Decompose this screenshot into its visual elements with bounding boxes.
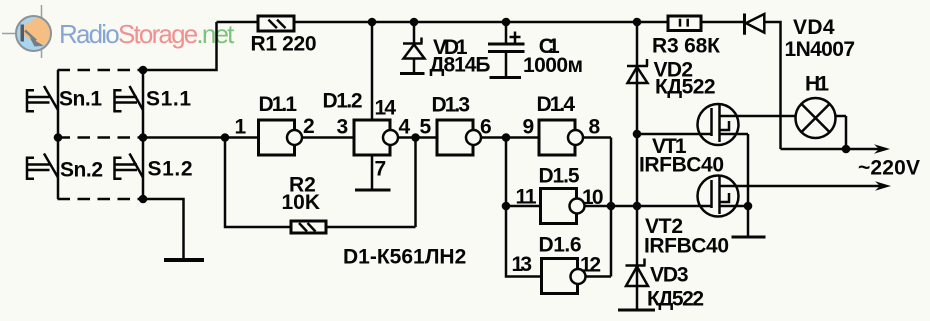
svg-text:9: 9 bbox=[523, 116, 535, 139]
wire: output bus to gate bus link bbox=[611, 205, 637, 208]
svg-text:14: 14 bbox=[375, 97, 397, 120]
wire: middle row to pin 1 of D1.1 bbox=[143, 136, 258, 139]
svg-text:3: 3 bbox=[337, 116, 349, 139]
node: mains upper junction bbox=[842, 145, 851, 154]
svg-text:~220V: ~220V bbox=[858, 157, 920, 180]
svg-text:Д814Б: Д814Б bbox=[430, 54, 491, 77]
node: VT1 gate junction bbox=[633, 130, 642, 139]
logo arrow bbox=[25, 31, 36, 41]
svg-text:H1: H1 bbox=[805, 73, 829, 96]
sensor Sn.1 bbox=[27, 86, 58, 113]
wire: VT1 gate bbox=[637, 133, 712, 136]
svg-text:VD3: VD3 bbox=[650, 264, 689, 287]
logo transistor bar bbox=[21, 25, 25, 42]
svg-text:S1.1: S1.1 bbox=[146, 88, 191, 111]
diode VD4 bbox=[743, 14, 746, 35]
svg-text:Sn.2: Sn.2 bbox=[60, 159, 103, 182]
wire: D1.2 out to D1.3 in bbox=[398, 136, 437, 139]
wire: dashed mechanical link top (Sn.1 to S1.1) bbox=[58, 69, 144, 72]
node: VT2 gate junction bbox=[633, 202, 642, 211]
svg-text:13: 13 bbox=[512, 253, 533, 276]
inverter D1.5 bbox=[541, 189, 577, 224]
logo circle bbox=[16, 16, 51, 51]
svg-text:IRFBC40: IRFBC40 bbox=[639, 154, 724, 177]
svg-text:R1 220: R1 220 bbox=[251, 32, 317, 55]
svg-text:D1.1: D1.1 bbox=[259, 93, 298, 116]
svg-text:12: 12 bbox=[580, 254, 601, 277]
wire: left sensor column vertical bbox=[57, 70, 60, 199]
node: S1.1 top junction bbox=[139, 66, 148, 75]
node: pin14 rail junction bbox=[368, 18, 377, 27]
resistor R1 bbox=[258, 16, 294, 31]
svg-text:Sn.1: Sn.1 bbox=[59, 88, 102, 111]
svg-text:6: 6 bbox=[480, 116, 492, 139]
svg-text:КД522: КД522 bbox=[655, 76, 716, 99]
svg-text:D1.6: D1.6 bbox=[539, 234, 582, 257]
wire: gate bus vertical bbox=[636, 22, 639, 310]
svg-text:1N4007: 1N4007 bbox=[785, 38, 856, 61]
svg-text:VD4: VD4 bbox=[793, 16, 835, 39]
svg-text:1000м: 1000м bbox=[523, 54, 583, 77]
inverter D1.2 bbox=[354, 120, 390, 155]
wire: bottom row to ground bbox=[143, 199, 184, 258]
node: S1 mid junction bbox=[139, 133, 148, 142]
wire: D1.4 out to output bus bbox=[583, 136, 611, 139]
svg-text:1: 1 bbox=[235, 116, 247, 139]
node: VD1 rail junction bbox=[410, 18, 419, 27]
node: input bus top junction bbox=[502, 133, 511, 142]
sensor Sn.2 bbox=[27, 154, 58, 181]
resistor R3 bbox=[668, 16, 701, 31]
lamp H1 bbox=[796, 98, 836, 138]
diode VD2 bbox=[627, 59, 648, 66]
transistor VT1 bbox=[698, 104, 739, 145]
wire: output bus vertical bbox=[610, 138, 613, 277]
wire: D1.6 out to output bus bbox=[586, 275, 612, 278]
node: input bus D1.5 junction bbox=[502, 202, 511, 211]
node: Sn mid junction bbox=[54, 133, 63, 142]
wire: D1.5 out to output bus bbox=[585, 205, 612, 208]
svg-text:4: 4 bbox=[399, 116, 411, 139]
wire: lower mains arrow head bbox=[875, 181, 891, 191]
inverter D1.1 bbox=[259, 120, 295, 155]
wire: D1.1 out to D1.2 in bbox=[302, 136, 354, 139]
node: R2 left junction bbox=[221, 133, 230, 142]
switch S1.1 bbox=[115, 86, 144, 113]
transistor VT2 bbox=[698, 176, 739, 217]
svg-text:11: 11 bbox=[516, 186, 537, 209]
svg-text:2: 2 bbox=[303, 115, 315, 138]
wire: top rail from corner to R3 junction bbox=[217, 21, 745, 24]
node: R3 rail junction bbox=[633, 18, 642, 27]
wire: lamp right to mains node bbox=[836, 116, 847, 149]
switch S1.2 bbox=[115, 154, 144, 181]
capacitor C1 bbox=[505, 22, 508, 43]
svg-text:7: 7 bbox=[375, 158, 387, 181]
node: C1 rail junction bbox=[502, 18, 511, 27]
svg-text:D1-К561ЛН2: D1-К561ЛН2 bbox=[343, 246, 466, 269]
svg-text:D1.4: D1.4 bbox=[537, 93, 576, 116]
svg-text:IRFBC40: IRFBC40 bbox=[644, 235, 729, 258]
resistor R2 feedback bbox=[225, 138, 416, 228]
svg-text:5: 5 bbox=[420, 116, 432, 139]
inverter D1.3 bbox=[437, 120, 473, 155]
wire: D1.5 input bbox=[506, 205, 541, 208]
node: pin4/5 junction bbox=[411, 133, 420, 142]
diode VD3 bbox=[626, 259, 646, 266]
wire: right sensor column vertical bbox=[142, 70, 145, 199]
wire: VT2 gate bbox=[637, 205, 712, 208]
svg-text:RadioStorage.net: RadioStorage.net bbox=[59, 19, 235, 49]
svg-text:КД522: КД522 bbox=[647, 288, 704, 311]
wire: dashed link middle row bbox=[58, 136, 144, 139]
wire: D1.3 out to D1.4 in bbox=[481, 136, 539, 139]
wire: corner down to sensor top line bbox=[143, 22, 217, 70]
svg-text:8: 8 bbox=[589, 116, 601, 139]
zener VD1 bbox=[403, 22, 423, 73]
svg-text:D1.3: D1.3 bbox=[432, 94, 471, 117]
wire: dashed link bottom row bbox=[58, 198, 144, 201]
svg-text:10K: 10K bbox=[282, 191, 321, 214]
svg-text:D1.5: D1.5 bbox=[539, 165, 580, 188]
wire: upper mains line with arrow bbox=[781, 148, 880, 151]
svg-text:S1.2: S1.2 bbox=[148, 158, 193, 181]
logo crosshair bbox=[2, 5, 42, 58]
inverter D1.4 bbox=[539, 120, 575, 155]
node: output bus D1.5 junction bbox=[607, 202, 616, 211]
ground bar under sensors bbox=[164, 258, 204, 262]
pin 14 wire bbox=[371, 22, 374, 120]
wire: input bus vertical bbox=[506, 138, 541, 277]
logo orange wedge bbox=[24, 16, 51, 47]
svg-text:R3 68К: R3 68К bbox=[652, 35, 720, 58]
pin 7 wire and ground bbox=[371, 155, 374, 190]
inverter D1.6 bbox=[542, 259, 578, 294]
node: S1.2 bottom junction bbox=[139, 195, 148, 204]
svg-text:D1.2: D1.2 bbox=[323, 90, 363, 113]
node: common source junction bbox=[744, 202, 753, 211]
